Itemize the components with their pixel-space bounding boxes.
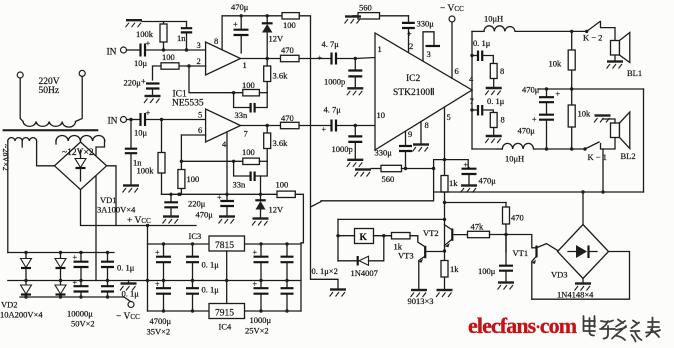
svg-text:220μ: 220μ xyxy=(188,199,206,209)
svg-text:0. 1μ: 0. 1μ xyxy=(202,285,220,295)
zener 12V ch2 xyxy=(259,193,262,196)
junction dots regulator rails xyxy=(162,242,165,245)
svg-text:10μH: 10μH xyxy=(484,14,503,24)
wire jog to relay supply xyxy=(311,202,322,207)
svg-text:330μ: 330μ xyxy=(417,19,435,29)
capacitor 10000u lower xyxy=(73,278,89,297)
svg-text:35V×2: 35V×2 xyxy=(147,327,171,337)
wire pin2 up xyxy=(408,30,410,52)
svg-text:100: 100 xyxy=(276,180,289,190)
wire 100 left to 220u xyxy=(153,66,162,80)
svg-text:4: 4 xyxy=(222,139,227,149)
svg-text:100k: 100k xyxy=(137,166,155,176)
node at VD1 right vertex xyxy=(107,166,116,226)
svg-text:8: 8 xyxy=(425,120,429,130)
wire 12V right end to VD1 right vertex xyxy=(96,141,105,281)
capacitor 1000p ch2 xyxy=(354,126,356,136)
capacitor 470u ch2 supply xyxy=(220,201,234,206)
svg-text:BL1: BL1 xyxy=(627,68,642,78)
speaker BL2 xyxy=(611,112,630,149)
svg-text:470μ: 470μ xyxy=(518,126,536,136)
relay contact K-2 xyxy=(585,30,588,33)
terminal AC2 xyxy=(79,70,85,76)
wire 12V left end to bridge xyxy=(55,141,57,144)
wire 28V left end down xyxy=(7,141,9,253)
svg-text:220μ: 220μ xyxy=(124,78,142,88)
capacitor 0.1u reg lower-left xyxy=(186,281,199,312)
wire -Vcc to pin6 xyxy=(451,22,453,78)
node 100k top xyxy=(162,48,165,51)
resistor 10k upper xyxy=(570,30,573,33)
capacitor 330u pin9 xyxy=(405,132,407,145)
resistor 560 lower xyxy=(371,168,381,170)
capacitor 470u rail ch1 xyxy=(240,16,242,53)
svg-text:2: 2 xyxy=(197,56,201,66)
svg-text:10μ: 10μ xyxy=(134,58,148,68)
svg-text:100: 100 xyxy=(242,80,255,90)
svg-text:+: + xyxy=(318,54,323,63)
terminal IN2 xyxy=(121,117,127,123)
svg-text:0. 1μ: 0. 1μ xyxy=(117,263,135,273)
svg-text:7: 7 xyxy=(244,129,248,139)
resistor 470 ch1 xyxy=(281,55,300,61)
svg-text:10k: 10k xyxy=(578,109,592,119)
wire to VT1 base xyxy=(506,235,536,248)
relay coil K xyxy=(336,234,339,237)
wire 28V center tap stub xyxy=(21,141,23,147)
svg-text:1N4007: 1N4007 xyxy=(351,268,378,278)
wire pin2 xyxy=(179,65,206,67)
transformer secondary 28V winding xyxy=(8,138,37,141)
capacitor 4.7u ch2 xyxy=(332,120,337,132)
svg-text:IC4: IC4 xyxy=(219,322,233,332)
svg-text:+: + xyxy=(146,38,151,48)
svg-text:+: + xyxy=(73,278,78,287)
svg-text:~28V×2: ~28V×2 xyxy=(1,144,10,171)
svg-text:K − 1: K − 1 xyxy=(588,152,607,162)
capacitor 220u ch2 supply xyxy=(169,193,172,196)
wire ground to 100k/1n rail xyxy=(142,21,187,23)
resistor 47k xyxy=(468,231,490,237)
ground BL1 xyxy=(614,55,616,61)
capacitor 1n ch2 xyxy=(130,120,132,149)
diode VD2a xyxy=(21,253,32,281)
svg-text:1000μ: 1000μ xyxy=(250,315,272,325)
svg-text:7815: 7815 xyxy=(215,241,234,251)
svg-text:K − 2: K − 2 xyxy=(583,33,602,43)
svg-text:100k: 100k xyxy=(136,29,154,39)
svg-text:100: 100 xyxy=(242,147,255,157)
diode 1N4007 xyxy=(338,260,357,262)
svg-text:+: + xyxy=(407,29,412,39)
transistor VT2 xyxy=(451,229,453,241)
wire pin4 supply ch2 xyxy=(226,132,228,200)
capacitor 470u sp upper xyxy=(546,89,548,96)
svg-text:10: 10 xyxy=(377,110,386,120)
capacitor 4700u upper xyxy=(155,244,171,281)
svg-text:1: 1 xyxy=(243,60,247,70)
svg-text:1n: 1n xyxy=(177,33,186,43)
svg-text:1000p: 1000p xyxy=(324,77,345,87)
svg-text:10000μ: 10000μ xyxy=(67,309,93,319)
svg-text:+: + xyxy=(146,108,151,118)
rail VD2 plus xyxy=(8,252,114,254)
logo chinese characters xyxy=(584,316,661,342)
resistor 3.6k ch2 xyxy=(266,126,268,162)
wire feedback ch1 xyxy=(189,66,243,93)
svg-text:9013×3: 9013×3 xyxy=(408,296,434,306)
svg-text:K: K xyxy=(360,233,368,243)
capacitor 0.1u reg upper-left xyxy=(186,244,199,281)
wire 28V right end to VD1 left vertex xyxy=(37,141,55,166)
resistor 100 fb ch2 xyxy=(243,158,260,164)
transformer primary winding xyxy=(23,122,75,128)
svg-text:+: + xyxy=(253,280,258,289)
wire +supply to relay rail xyxy=(321,160,445,201)
svg-text:3.6k: 3.6k xyxy=(273,138,289,148)
rail bottom output xyxy=(472,148,497,150)
svg-text:+: + xyxy=(532,115,537,124)
wire IN2 to cap xyxy=(127,119,140,121)
ground -15 column xyxy=(330,290,347,297)
svg-text:50Hz: 50Hz xyxy=(39,86,60,96)
wire 12V center tap to VD1 top xyxy=(80,141,82,143)
svg-text:0. 1μ: 0. 1μ xyxy=(202,260,220,270)
resistor 1k VT2 emitter xyxy=(444,251,446,289)
diode VD2b xyxy=(55,253,66,281)
output node wire xyxy=(471,31,473,149)
svg-text:+: + xyxy=(141,76,146,86)
transistor VT1 xyxy=(535,246,537,258)
svg-text:VD3: VD3 xyxy=(551,270,568,280)
svg-text:BL2: BL2 xyxy=(621,151,636,161)
svg-text:+: + xyxy=(253,248,258,257)
wire pin3 xyxy=(147,49,206,51)
capacitor 1000u upper xyxy=(253,244,269,281)
rail top output xyxy=(472,30,484,32)
svg-text:4700μ: 4700μ xyxy=(150,316,172,326)
op-amp U2 triangle xyxy=(375,33,472,150)
relay contact K-1 xyxy=(583,147,586,150)
wire center column xyxy=(444,203,446,252)
svg-text:STK2100Ⅱ: STK2100Ⅱ xyxy=(393,88,435,98)
wire to K-2 xyxy=(515,30,587,32)
rail reg top xyxy=(148,243,210,245)
svg-text:+: + xyxy=(322,125,327,134)
wire pin5 down xyxy=(444,107,446,203)
wire IN1 to cap xyxy=(127,49,140,51)
node 1n ch1 xyxy=(185,48,188,51)
resistor 8 top xyxy=(490,64,497,79)
rail mid speaker xyxy=(538,88,644,90)
wire op2 output xyxy=(241,125,331,127)
wire VD3 loop xyxy=(532,252,630,300)
svg-text:100: 100 xyxy=(283,20,296,30)
op-amp +rail top xyxy=(222,15,282,17)
junction dots VD2 xyxy=(24,251,27,254)
diode VD2c xyxy=(21,281,32,298)
capacitor 10u ch1 xyxy=(141,44,146,57)
svg-text:470: 470 xyxy=(281,113,294,123)
capacitor 1n ch1 xyxy=(186,22,188,51)
wire 100 to -15 column xyxy=(295,194,303,311)
svg-text:6: 6 xyxy=(198,125,202,135)
svg-text:IC3: IC3 xyxy=(189,231,202,241)
svg-text:10μ: 10μ xyxy=(134,128,148,138)
ground top-left xyxy=(126,20,143,27)
capacitor 0.1u upper left xyxy=(101,253,114,281)
capacitor 10000u upper xyxy=(73,253,89,281)
negative supply rail -15V xyxy=(162,193,278,195)
svg-text:+: + xyxy=(73,253,78,262)
svg-text:10A200V×4: 10A200V×4 xyxy=(0,310,43,320)
inductor 10uH bottom xyxy=(502,143,533,149)
op-amp U1a xyxy=(206,42,241,75)
wire right rail down xyxy=(643,89,645,192)
capacitor 0.1u reg upper-right xyxy=(281,244,294,281)
svg-text:330μ: 330μ xyxy=(375,148,393,158)
wire pin6 xyxy=(181,134,205,136)
svg-text:0. 1μ×2: 0. 1μ×2 xyxy=(312,266,338,276)
wire feedback ch2 xyxy=(181,135,242,161)
svg-text:elecfans·com: elecfans·com xyxy=(468,313,577,338)
svg-text:5: 5 xyxy=(447,112,451,122)
zobel cap 0.1u top xyxy=(470,54,473,57)
capacitor 4.7u ch1 xyxy=(332,53,337,65)
svg-text:47k: 47k xyxy=(471,222,485,232)
inductor 10uH top xyxy=(484,26,515,32)
svg-text:+: + xyxy=(155,248,160,257)
speaker BL1 xyxy=(611,33,630,63)
wire pin8 to +rail xyxy=(221,16,223,50)
capacitor 220u ch1 xyxy=(146,84,160,89)
terminal AC1 xyxy=(17,72,23,78)
svg-text:3: 3 xyxy=(197,40,201,50)
svg-text:10μH: 10μH xyxy=(505,154,524,164)
svg-text:8: 8 xyxy=(501,115,505,125)
ground VD3 xyxy=(582,279,584,283)
svg-text:10k: 10k xyxy=(549,59,563,69)
capacitor 470u sp lower xyxy=(539,115,554,120)
wire K-1 to relay circuit xyxy=(602,149,604,192)
resistor 1k relay xyxy=(392,233,411,239)
svg-text:VT1: VT1 xyxy=(513,248,529,258)
svg-text:1k: 1k xyxy=(449,178,458,188)
wire primary right xyxy=(76,76,83,121)
resistor 100 supply ch2 xyxy=(277,191,295,197)
svg-text:470: 470 xyxy=(511,213,524,223)
svg-text:9: 9 xyxy=(408,129,412,139)
svg-text:33n: 33n xyxy=(235,110,249,120)
zener 12V ch1 xyxy=(266,14,269,17)
resistor 100 fb ch1 xyxy=(243,90,260,96)
rail VD2 minus xyxy=(20,297,131,302)
svg-text:3A100V×4: 3A100V×4 xyxy=(97,205,136,215)
svg-text:− VCC: − VCC xyxy=(116,312,140,322)
svg-text:+: + xyxy=(464,161,469,170)
svg-text:100μ: 100μ xyxy=(478,266,496,276)
transformer core xyxy=(3,129,99,131)
svg-text:0. 1μ: 0. 1μ xyxy=(473,38,491,48)
svg-text:1k: 1k xyxy=(450,264,459,274)
ground BL2 xyxy=(603,119,616,123)
wire 7815 gnd xyxy=(226,251,228,304)
transistor VT3 xyxy=(410,236,424,246)
wire to IC2 pin10 xyxy=(338,125,376,127)
resistor 100k ch2 xyxy=(161,120,163,195)
capacitor 330u pin2 xyxy=(402,23,415,28)
node 100k ch2 xyxy=(160,118,163,121)
capacitor 100u xyxy=(505,235,507,265)
svg-text:VD2: VD2 xyxy=(1,300,18,310)
resistor 3.6k ch1 xyxy=(266,59,268,93)
ground mid-rail xyxy=(128,281,130,283)
capacitor 0.1u reg lower-right xyxy=(281,281,294,312)
svg-text:IN: IN xyxy=(108,117,118,127)
ground VT3 xyxy=(411,290,428,297)
svg-text:100: 100 xyxy=(187,174,200,184)
wire K coil rail xyxy=(338,218,445,220)
node 1n ch2 xyxy=(129,118,132,121)
wire to IC2 pin1 xyxy=(338,58,376,59)
svg-text:12V: 12V xyxy=(269,34,285,44)
capacitor 0.1u lower left xyxy=(101,281,114,298)
svg-text:12V: 12V xyxy=(269,205,285,215)
svg-text:8: 8 xyxy=(500,66,504,76)
regulator 7815 IC3 xyxy=(209,236,245,251)
junction +Vcc/regulator xyxy=(146,224,149,227)
svg-text:3: 3 xyxy=(427,49,431,59)
svg-text:5: 5 xyxy=(198,110,202,120)
wire VD3 top to relay rail xyxy=(582,192,584,225)
ground 560 top xyxy=(353,15,358,17)
svg-text:560: 560 xyxy=(359,3,372,13)
regulator 7915 IC4 xyxy=(209,304,245,319)
svg-text:100: 100 xyxy=(162,52,175,62)
svg-text:+: + xyxy=(155,280,160,289)
capacitor 470u bootstrap xyxy=(445,160,469,168)
node rail y203 xyxy=(445,202,507,204)
node pin5/470u xyxy=(443,158,446,161)
svg-text:VD1: VD1 xyxy=(100,195,117,205)
resistor 100 in ch1 xyxy=(161,63,179,69)
svg-text:6: 6 xyxy=(455,66,459,76)
wire to K-1 xyxy=(534,148,586,150)
svg-text:33n: 33n xyxy=(233,180,247,190)
svg-text:8: 8 xyxy=(214,36,218,46)
svg-text:NE5535: NE5535 xyxy=(172,99,204,109)
diode VD2d xyxy=(55,281,66,298)
wire VD1 bottom to +Vcc rail xyxy=(81,190,197,226)
capacitor 1000u lower xyxy=(253,280,269,312)
resistor 1k pin5 xyxy=(441,176,448,193)
svg-text:2: 2 xyxy=(409,41,413,51)
svg-text:IC2: IC2 xyxy=(406,74,421,84)
terminal -Vcc top xyxy=(449,16,455,22)
svg-text:4. 7μ: 4. 7μ xyxy=(322,39,340,49)
capacitor 4700u lower xyxy=(155,280,171,312)
svg-text:50V×2: 50V×2 xyxy=(71,319,95,329)
capacitor 33n ch2 xyxy=(234,161,268,176)
svg-text:7915: 7915 xyxy=(215,309,234,319)
svg-text:VT2: VT2 xyxy=(423,228,439,238)
resistor 100 bias ch2 xyxy=(180,161,182,194)
ground 560 lower xyxy=(355,170,372,177)
capacitor 10u ch2 xyxy=(141,113,146,126)
capacitor 33n ch1 xyxy=(234,93,268,108)
resistor 470 prot xyxy=(505,203,507,253)
bridge rectifier VD3 xyxy=(558,225,609,279)
wire pin5 xyxy=(147,119,206,121)
terminal -Vcc xyxy=(128,302,134,308)
svg-text:470μ: 470μ xyxy=(196,210,214,220)
resistor 100k ch1 xyxy=(163,22,165,51)
rail VD2 mid (gnd) xyxy=(8,280,301,282)
svg-text:25V×2: 25V×2 xyxy=(245,326,269,336)
svg-text:470μ: 470μ xyxy=(231,2,249,12)
svg-text:~12V×2: ~12V×2 xyxy=(62,148,94,158)
pin 3 hook ground xyxy=(423,32,434,61)
terminal IN1 xyxy=(121,47,127,53)
capacitor 1000p ch1 xyxy=(354,59,356,70)
resistor 10k lower xyxy=(571,89,573,149)
svg-text:0. 1μ: 0. 1μ xyxy=(487,96,505,106)
svg-text:470μ: 470μ xyxy=(522,85,540,95)
resistor 8 bottom xyxy=(490,113,497,128)
svg-text:+: + xyxy=(556,90,561,99)
transformer secondary 12V winding xyxy=(56,136,105,142)
rail reg bottom xyxy=(148,310,302,312)
svg-text:IN: IN xyxy=(107,48,117,58)
wire 100 to +15 column xyxy=(299,16,338,289)
svg-text:1000p: 1000p xyxy=(332,144,353,154)
node 330u/560 xyxy=(404,167,407,170)
svg-text:0. 1μ: 0. 1μ xyxy=(122,289,140,299)
svg-text:VT3: VT3 xyxy=(398,251,414,261)
svg-text:1N4148×4: 1N4148×4 xyxy=(557,290,594,300)
ground 220u ch1 xyxy=(144,96,161,103)
op-amp U1b xyxy=(206,109,241,142)
ground 1k VT2 xyxy=(436,290,453,297)
svg-text:470: 470 xyxy=(281,45,294,55)
svg-text:1: 1 xyxy=(378,44,382,54)
wire primary left xyxy=(20,78,23,122)
svg-text:− VCC: − VCC xyxy=(440,4,464,14)
svg-text:560: 560 xyxy=(382,174,395,184)
resistor 560 top xyxy=(380,15,409,17)
wire unreg plus down xyxy=(147,226,149,312)
svg-text:+: + xyxy=(233,19,238,29)
svg-text:470μ: 470μ xyxy=(479,176,497,186)
wire op1 output xyxy=(241,58,331,60)
resistor 100 top xyxy=(282,13,299,19)
wire pin8 ground xyxy=(420,122,422,144)
svg-text:4. 7μ: 4. 7μ xyxy=(324,105,342,115)
svg-text:3.6k: 3.6k xyxy=(273,71,289,81)
zobel cap 0.1u bottom xyxy=(470,108,473,111)
resistor 470 ch2 xyxy=(281,122,300,128)
